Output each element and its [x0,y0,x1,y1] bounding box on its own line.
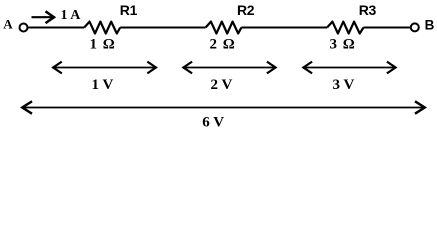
svg-text:2 V: 2 V [211,77,233,93]
svg-text:R1: R1 [120,2,138,18]
wire R3 to B [364,27,412,29]
terminal B [411,23,419,31]
svg-text:6 V: 6 V [202,115,224,131]
svg-text:1 V: 1 V [92,77,114,93]
current arrow 1 A [32,11,55,23]
svg-text:R3: R3 [359,2,377,18]
voltage arrow 1 V [53,62,156,74]
svg-text:3 Ω: 3 Ω [330,37,356,53]
svg-text:R2: R2 [237,2,255,18]
wire A to R1 [28,27,85,29]
terminal A [20,24,28,32]
resistor R3 [327,22,363,34]
svg-text:3 V: 3 V [333,77,355,93]
svg-text:1 Ω: 1 Ω [90,37,116,53]
voltage arrow 2 V [183,62,275,74]
svg-text:B: B [425,17,435,32]
resistor R1 [84,22,120,34]
svg-text:1 A: 1 A [61,8,82,23]
svg-text:2 Ω: 2 Ω [210,37,236,53]
voltage arrow 3 V [303,62,395,74]
total voltage arrow 6 V [22,101,425,113]
wire R1 to R2 [120,27,205,29]
svg-text:A: A [3,17,13,32]
wire R2 to R3 [241,27,327,29]
resistor R2 [206,22,242,34]
